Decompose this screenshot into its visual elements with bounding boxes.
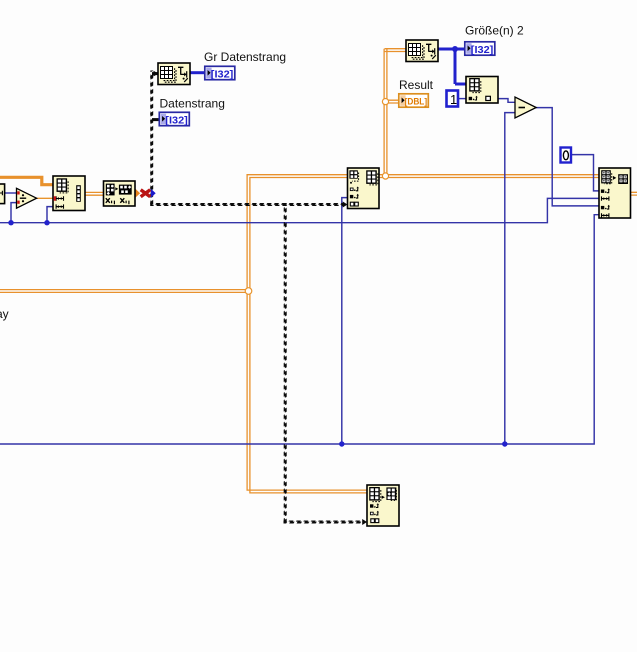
wire: long thin blue y=222 net with branches to divide and Reshape, up to right node row2 xyxy=(0,198,600,222)
wire: thick blue Array Size 2 to I32 and down to Index Array xyxy=(438,49,466,84)
node: Replace Array Subset (bottom) xyxy=(367,485,399,526)
wire: subtract out down to right node row3 xyxy=(536,108,600,206)
node: left partial (cut off at edge) xyxy=(0,184,5,204)
wire: 2D orange trunk x=248.5 with branches (left edge y=291, top to Insert, bottom to Replace) xyxy=(0,175,367,493)
svg-text:ay: ay xyxy=(0,307,9,321)
wire: Index Array out to subtract top input xyxy=(498,99,515,103)
svg-text:[DBL]: [DBL] xyxy=(405,97,428,108)
broken wire: vertical trunk x=151.7 from Array Size 1 down, horizontal y=204 to Insert xyxy=(150,71,347,208)
svg-text:Gr Datenstrang: Gr Datenstrang xyxy=(204,50,286,64)
wire: 2D orange Insert output to right node, trunk x=385.5 up to Array Size 2, branch to Result xyxy=(379,49,600,178)
node: Array Subset (right, partially cut) xyxy=(599,168,631,218)
broken wire junction: orange arrow, red X, blue arrow at transpose output xyxy=(135,189,155,198)
indicator [I32] Datenstrang xyxy=(159,112,189,126)
svg-text:[I32]: [I32] xyxy=(211,68,234,80)
wire: thick blue Array Size 1 to I32 xyxy=(191,71,205,74)
wire: divide output thin orange to Reshape xyxy=(37,197,54,199)
junction dot (47,222) xyxy=(44,220,49,225)
indicator [I32] Groesse(n) 2 xyxy=(465,42,495,56)
label: partial "ay" at left edge xyxy=(0,307,9,321)
label: Groesse(n) 2 xyxy=(465,24,524,38)
junction dot (341.6,443.3) xyxy=(339,441,344,446)
svg-text:[I32]: [I32] xyxy=(471,44,494,56)
label: Datenstrang xyxy=(160,97,225,111)
junction circle on 2D orange at (248.5,291) xyxy=(245,288,252,295)
constant 1 xyxy=(447,91,459,107)
svg-text:1: 1 xyxy=(450,92,457,107)
junction circle at (385.5,101.6) xyxy=(382,99,388,105)
node: Array Size 2 xyxy=(406,40,438,62)
wire: y=443 net from left edge, up x=341.6 to Insert, up x=504.8 to subtract, right end up to right node row4 xyxy=(0,113,600,444)
node: Reshape Array xyxy=(53,176,85,211)
wire: 2D orange Reshape out to Transpose in xyxy=(85,192,104,195)
broken wire: branch x=285 down to Replace node xyxy=(284,203,368,525)
svg-text:Größe(n) 2: Größe(n) 2 xyxy=(465,24,524,38)
node: Index Array xyxy=(466,77,498,104)
node: Array Size 1 xyxy=(158,63,190,85)
wire: constant 1 to Index Array xyxy=(459,98,466,100)
indicator [I32] Gr Datenstrang xyxy=(205,66,235,80)
wire: left node out to divide top input xyxy=(5,192,17,194)
node: subtract triangle xyxy=(515,97,536,118)
wire: constant 0 to right node row1 xyxy=(572,155,600,191)
node: Transpose 2D Array xyxy=(104,181,136,206)
svg-text:Datenstrang: Datenstrang xyxy=(160,97,225,111)
junction dot (11,222) xyxy=(8,220,13,225)
constant 0 xyxy=(561,148,572,163)
junction dot (504.8,443.3) xyxy=(502,441,507,446)
junction dot (455,49) xyxy=(452,46,458,52)
wire: thick orange 1D DBL array from left edge into Reshape Array xyxy=(0,177,53,184)
label: Result xyxy=(399,78,434,92)
svg-text:Result: Result xyxy=(399,78,434,92)
wire: 2D orange output of right node to edge xyxy=(631,192,637,195)
junction circle at (385.5,176) xyxy=(382,173,388,179)
indicator [DBL] Result xyxy=(399,94,429,108)
label: Gr Datenstrang xyxy=(204,50,286,64)
node: divide triangle xyxy=(17,188,37,208)
svg-text:[I32]: [I32] xyxy=(165,114,188,126)
node: Insert Into Array xyxy=(348,168,380,209)
